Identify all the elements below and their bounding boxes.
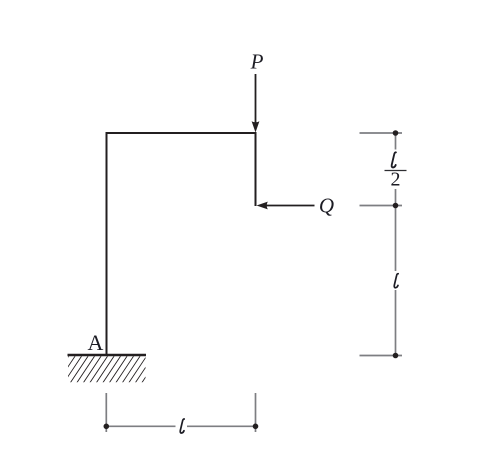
svg-text:P: P <box>250 50 264 74</box>
bottom dimension: end dots <box>104 424 110 430</box>
bottom dimension: horizontal line segments <box>106 425 175 427</box>
right dimension: vertical line segments <box>395 133 397 150</box>
right dimension: tick line at top beam level <box>360 132 403 134</box>
right dimension: tick line at base level <box>360 355 403 357</box>
dimension label l/2 (fraction) <box>392 152 396 167</box>
svg-text:2: 2 <box>391 169 401 191</box>
dimension label l (bottom) <box>180 419 184 433</box>
svg-text:A: A <box>87 330 103 355</box>
fixed support hatching <box>50 354 161 384</box>
frame member (L-shaped bent: left column, top beam, right stub) <box>107 133 256 355</box>
dimension label l (right, lower span) <box>394 274 398 288</box>
force Q arrow <box>266 205 315 207</box>
fixed support ground line at A <box>68 354 147 356</box>
right dimension: end dots <box>393 130 399 136</box>
right dimension: tick line at Q level <box>360 205 403 207</box>
svg-text:Q: Q <box>319 194 334 218</box>
force P arrow <box>255 74 257 123</box>
bottom dimension: extension lines <box>105 393 107 432</box>
